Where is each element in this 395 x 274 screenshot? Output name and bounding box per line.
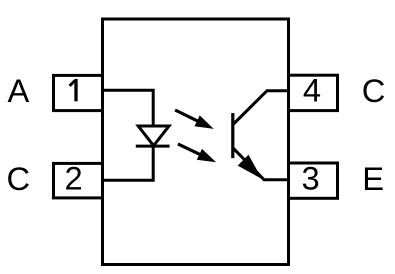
- pin 2 box: [54, 163, 103, 198]
- pin 1 box: [54, 75, 103, 110]
- collector lead to pin 4: [233, 91, 289, 125]
- svg-text:A: A: [7, 72, 29, 109]
- light arrow 1 shaft: [175, 110, 200, 122]
- svg-text:3: 3: [302, 160, 320, 197]
- svg-text:C: C: [362, 72, 386, 109]
- svg-text:C: C: [6, 160, 30, 197]
- pin 3 box: [289, 163, 338, 198]
- svg-text:E: E: [362, 160, 384, 197]
- light arrow 1 head: [195, 115, 214, 128]
- emitter arrowhead: [238, 155, 262, 179]
- LED D1 cathode bar: [136, 145, 170, 148]
- wire pin1 to LED anode: [103, 90, 154, 124]
- svg-text:2: 2: [65, 160, 83, 197]
- wire LED cathode to pin2: [103, 146, 154, 180]
- emitter lead to pin 3: [233, 148, 289, 180]
- light arrow 2 shaft: [178, 144, 203, 156]
- pin 1 number: [70, 79, 76, 101]
- phototransistor Q1 base bar: [231, 113, 234, 158]
- IC body U1: [103, 19, 289, 265]
- LED D1 triangle (anode): [138, 126, 169, 146]
- light arrow 2 head: [197, 149, 216, 162]
- pin 4 box: [289, 75, 338, 110]
- svg-text:4: 4: [303, 71, 321, 108]
